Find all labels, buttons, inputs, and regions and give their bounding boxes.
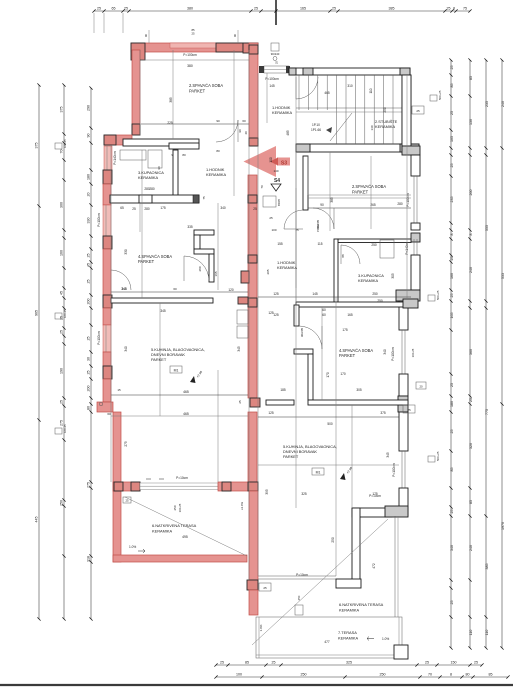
right dimension chain 2: [468, 58, 472, 649]
svg-text:160-25: 160-25: [63, 309, 67, 318]
svg-text:477: 477: [324, 640, 330, 644]
svg-text:25: 25: [60, 400, 64, 404]
stair east wall: [402, 75, 411, 147]
left unit top-right corner column: [243, 43, 258, 53]
living room south window band: [140, 483, 218, 490]
svg-text:KERAMIKA: KERAMIKA: [272, 110, 293, 115]
svg-text:80: 80: [466, 673, 470, 677]
spine wall middle: [248, 175, 257, 398]
right living hline: [258, 464, 399, 466]
right unit inner face lines: [295, 75, 297, 508]
svg-text:25: 25: [97, 7, 101, 11]
svg-text:25: 25: [87, 280, 91, 284]
svg-text:KERAMIKA: KERAMIKA: [138, 175, 159, 180]
svg-text:90: 90: [87, 134, 91, 138]
svg-text:472: 472: [372, 563, 376, 569]
svg-text:75: 75: [463, 7, 467, 11]
svg-text:8: 8: [469, 234, 473, 236]
svg-text:2.SPAVAĆA SOBA: 2.SPAVAĆA SOBA: [352, 184, 386, 189]
svg-text:25: 25: [220, 661, 224, 665]
svg-text:S3: S3: [281, 161, 287, 167]
svg-text:90/240: 90/240: [271, 52, 280, 56]
east wall seg3: [411, 255, 420, 290]
svg-text:375: 375: [380, 411, 386, 415]
svg-text:465: 465: [324, 91, 330, 95]
svg-text:60: 60: [107, 412, 111, 416]
svg-text:2.SPAVAĆA SOBA: 2.SPAVAĆA SOBA: [189, 83, 223, 88]
svg-text:335: 335: [187, 225, 193, 229]
svg-text:250: 250: [301, 673, 307, 677]
svg-text:165: 165: [347, 313, 353, 317]
spine column at living wall: [248, 482, 258, 491]
west wall column B: [103, 170, 112, 184]
section marker square top: [271, 43, 279, 51]
svg-text:25: 25: [474, 661, 478, 665]
svg-text:160-25: 160-25: [63, 424, 67, 433]
svg-text:85: 85: [489, 673, 493, 677]
left unit west wall mid4: [103, 352, 111, 366]
svg-text:25: 25: [450, 164, 454, 168]
svg-text:PP/02: PP/02: [316, 224, 320, 232]
svg-text:500: 500: [327, 422, 333, 426]
svg-text:165: 165: [450, 313, 454, 319]
bedroom4 nook mid wall: [194, 249, 214, 254]
svg-text:250: 250: [173, 505, 177, 510]
svg-text:85: 85: [450, 84, 454, 88]
stair east wall lower: [402, 75, 411, 146]
right terrace west wall: [352, 508, 360, 585]
svg-text:65: 65: [112, 7, 116, 11]
svg-text:90: 90: [216, 119, 220, 123]
svg-text:325: 325: [301, 492, 307, 496]
svg-text:25: 25: [450, 294, 454, 298]
bedroom4 interior lines: [139, 203, 141, 232]
svg-text:385: 385: [389, 7, 395, 11]
right bedroom4 south wall west: [266, 400, 294, 405]
svg-text:85: 85: [469, 76, 473, 80]
east wall column 3: [398, 396, 408, 412]
svg-text:P=100cm: P=100cm: [97, 213, 101, 227]
svg-text:305: 305: [356, 388, 362, 392]
box right of spine at hall wall: [263, 196, 276, 207]
terrace bottom wall: [113, 555, 247, 562]
left dimension chain outer: [35, 83, 41, 620]
svg-text:25: 25: [416, 109, 420, 113]
stair north wall east column: [400, 68, 410, 75]
svg-text:130: 130: [469, 119, 473, 125]
ext line y417 right: [258, 416, 399, 418]
right bedroom4 nook upper wall: [294, 305, 299, 326]
svg-text:340: 340: [220, 206, 226, 210]
spine column 5 left block: [241, 271, 249, 283]
bathroom-hall partition wall: [173, 150, 178, 196]
ext line x296b right: [295, 152, 297, 302]
right bedroom2 west wall: [303, 156, 308, 210]
west wall window 2: [103, 325, 111, 352]
east wall column 2: [411, 233, 420, 242]
svg-text:8: 8: [450, 234, 454, 236]
right nook door swing: [299, 326, 322, 349]
spine wall lower: [248, 412, 257, 482]
spine wall terrace section: [249, 491, 258, 580]
east wall seg5: [399, 374, 408, 396]
right dimension chain 4: [500, 58, 504, 649]
svg-text:500+25: 500+25: [438, 90, 442, 100]
stair entry door swing: [295, 77, 297, 99]
svg-text:25: 25: [450, 510, 454, 514]
west wall window 1: [103, 205, 111, 236]
svg-text:180: 180: [87, 174, 91, 180]
right terrace diagonal: [252, 519, 388, 645]
bedroom2 interior top dim: [141, 59, 249, 61]
stair 25 box: [412, 106, 424, 114]
east wall window 1: [413, 176, 415, 223]
svg-text:465: 465: [183, 412, 189, 416]
left dimension chain middle: [60, 83, 66, 620]
svg-text:1.0%: 1.0%: [382, 637, 389, 641]
svg-text:240: 240: [469, 545, 473, 551]
right bedroom4 nook lower wall: [308, 354, 313, 400]
svg-text:300: 300: [60, 202, 64, 208]
svg-text:200: 200: [87, 299, 91, 305]
west wall step block: [97, 402, 113, 412]
top dimension chain left part: [92, 7, 262, 13]
left dimension chain inner: [87, 86, 93, 620]
svg-text:175: 175: [160, 206, 166, 210]
kitchen counter boxes: [237, 310, 248, 324]
svg-text:555: 555: [485, 225, 489, 231]
svg-text:25: 25: [407, 408, 411, 412]
right living ext vline: [351, 405, 353, 508]
svg-text:25: 25: [450, 66, 454, 70]
svg-text:KERAMIKA: KERAMIKA: [375, 124, 396, 129]
spine wall upper: [249, 43, 258, 146]
spine column 6: [248, 298, 257, 307]
svg-text:125: 125: [268, 411, 274, 415]
right bedroom2 thin double line: [308, 194, 411, 196]
right bedroom4 south wall east: [308, 400, 408, 405]
circle step left wall: [99, 402, 103, 406]
window marks on top wall: [148, 30, 150, 43]
living room south wall east part: [218, 482, 258, 491]
east wall jog block: [396, 290, 420, 301]
svg-text:160-25: 160-25: [63, 139, 67, 148]
svg-text:P=140cm: P=140cm: [113, 151, 117, 165]
svg-text:60: 60: [242, 119, 246, 123]
living south wall column W: [114, 482, 123, 491]
small box right of spine end: [259, 583, 271, 591]
terrace7 outline: [256, 617, 402, 658]
svg-text:775: 775: [485, 409, 489, 415]
spine wall tail: [249, 590, 258, 615]
svg-text:205: 205: [266, 269, 270, 274]
svg-text:250: 250: [383, 107, 387, 113]
top dimension chain right part: [274, 7, 471, 13]
stair south wall: [296, 144, 419, 152]
svg-text:140: 140: [370, 125, 374, 130]
bedroom4 south wall block: [238, 297, 248, 304]
svg-text:P=10cm: P=10cm: [296, 573, 308, 577]
marker box right 1: [430, 95, 437, 101]
bedroom2 south wall step: [169, 143, 199, 149]
svg-text:275: 275: [124, 441, 128, 447]
svg-text:25: 25: [469, 398, 473, 402]
svg-text:250: 250: [331, 537, 335, 543]
bottom border line: [0, 684, 513, 686]
svg-text:125: 125: [273, 313, 279, 317]
svg-text:65: 65: [120, 206, 124, 210]
svg-text:25: 25: [238, 400, 242, 404]
svg-text:90: 90: [233, 33, 237, 37]
living south wall column 2: [222, 482, 231, 491]
hall south wall end block: [193, 195, 199, 203]
svg-text:20: 20: [419, 385, 423, 389]
svg-text:160: 160: [450, 273, 454, 279]
svg-text:500+25: 500+25: [436, 290, 440, 300]
svg-text:465: 465: [183, 390, 189, 394]
right terrace parapet: [258, 575, 336, 577]
svg-text:345: 345: [121, 287, 127, 291]
east wall seg6: [399, 412, 408, 451]
terrace east thin boundary: [394, 516, 396, 617]
left unit top wall: [131, 43, 258, 52]
east wall seg2: [411, 223, 420, 230]
stair north wall west column: [289, 68, 296, 75]
svg-text:235: 235: [485, 101, 489, 107]
svg-text:30: 30: [87, 357, 91, 361]
svg-text:485: 485: [286, 130, 290, 136]
top wall window band: [170, 43, 217, 48]
svg-text:445: 445: [35, 517, 39, 523]
svg-text:90: 90: [238, 129, 242, 133]
svg-text:240: 240: [469, 267, 473, 273]
ext line x371 right: [370, 156, 372, 229]
svg-text:25: 25: [253, 207, 257, 211]
svg-text:25: 25: [447, 7, 451, 11]
spine end column: [247, 580, 258, 590]
stair south wall west column: [296, 144, 310, 152]
svg-text:25: 25: [450, 111, 454, 115]
right south wall spine block: [250, 398, 260, 407]
right unit inner face line spine: [257, 73, 259, 576]
left unit top-left corner column: [131, 43, 145, 60]
marker box 1: [55, 143, 62, 149]
svg-text:380: 380: [187, 7, 193, 11]
svg-text:60: 60: [322, 308, 326, 312]
svg-text:6.NATKRIVENA TERASA: 6.NATKRIVENA TERASA: [339, 602, 384, 607]
right living south walls: [352, 508, 392, 517]
svg-text:8: 8: [450, 673, 452, 677]
top section line marker: [275, 0, 277, 25]
svg-text:PARKET: PARKET: [151, 357, 167, 362]
right dimension chain 1: [449, 58, 453, 649]
svg-text:100: 100: [269, 157, 273, 163]
svg-text:M1: M1: [316, 471, 321, 475]
svg-text:225: 225: [167, 121, 173, 125]
svg-text:330: 330: [87, 218, 91, 224]
right hall south gray block: [403, 299, 418, 308]
svg-text:KERAMIKA: KERAMIKA: [338, 636, 359, 641]
svg-text:495: 495: [182, 535, 188, 539]
bedroom4 nook lower wall: [209, 254, 214, 282]
svg-text:80: 80: [87, 406, 91, 410]
svg-text:90: 90: [157, 166, 161, 170]
svg-text:M1: M1: [174, 369, 179, 373]
bedroom4 door swing: [184, 256, 209, 281]
svg-text:340: 340: [124, 346, 128, 352]
stair south wall east column: [400, 144, 419, 152]
spine column 2: [249, 138, 258, 146]
svg-text:145: 145: [269, 84, 275, 88]
east wall seg7: [399, 488, 408, 507]
east wall window 4: [401, 451, 403, 488]
svg-text:PARKET: PARKET: [352, 190, 369, 195]
svg-text:170: 170: [326, 372, 330, 378]
svg-text:25: 25: [450, 601, 454, 605]
svg-text:105: 105: [450, 136, 454, 142]
svg-text:60: 60: [322, 313, 326, 317]
svg-text:P=100cm: P=100cm: [391, 347, 395, 361]
svg-text:310: 310: [347, 84, 353, 88]
svg-text:385: 385: [330, 197, 334, 203]
left closet door arc: [111, 270, 131, 290]
ext line x160: [159, 303, 161, 416]
svg-text:165: 165: [300, 7, 306, 11]
east wall seg1: [411, 155, 420, 176]
svg-text:533: 533: [501, 273, 505, 279]
bedroom2 south wall band: [123, 139, 199, 146]
svg-text:KERAMIKA: KERAMIKA: [152, 529, 173, 534]
svg-text:85: 85: [469, 500, 473, 504]
svg-text:240: 240: [501, 101, 505, 107]
terrace small box left: [123, 497, 131, 503]
right unit north window band: [264, 66, 289, 73]
svg-text:S4: S4: [274, 178, 280, 184]
svg-text:120: 120: [228, 288, 234, 292]
west wall column E: [103, 366, 112, 379]
living room south wall west part: [113, 482, 140, 491]
svg-text:PARKET: PARKET: [189, 89, 206, 94]
svg-text:280: 280: [144, 187, 150, 191]
terrace west wall lower: [113, 491, 121, 562]
svg-text:PARKET: PARKET: [283, 454, 299, 459]
right bedroom4 nook mid wall: [294, 349, 313, 354]
terrace7 corner block: [394, 645, 408, 659]
svg-text:190: 190: [60, 368, 64, 374]
svg-text:318: 318: [87, 556, 91, 562]
svg-text:P=100cm: P=100cm: [265, 77, 279, 81]
svg-text:235: 235: [450, 197, 454, 203]
svg-text:7.TERASA: 7.TERASA: [338, 630, 357, 635]
svg-text:375: 375: [35, 143, 39, 149]
entry arrow S3: [244, 146, 277, 177]
svg-text:6.NATKRIVENA TERASA: 6.NATKRIVENA TERASA: [152, 523, 197, 528]
bedroom4 nook side wall: [194, 235, 200, 249]
svg-text:≤1.0%: ≤1.0%: [240, 502, 244, 510]
east wall bottom corner: [390, 507, 408, 516]
svg-text:45: 45: [87, 263, 91, 267]
spine column top: [249, 45, 258, 54]
svg-text:90: 90: [144, 33, 148, 37]
svg-text:25: 25: [124, 7, 128, 11]
west wall window P140: [104, 146, 112, 170]
east wall seg4: [399, 301, 408, 330]
svg-text:345: 345: [160, 309, 166, 313]
svg-text:290: 290: [87, 105, 91, 111]
marker box 2: [55, 313, 62, 319]
left unit inner face lines: [139, 50, 141, 135]
bathroom fixtures left: [120, 150, 146, 160]
ext line x142: [141, 150, 143, 298]
svg-text:P=10cm: P=10cm: [176, 476, 188, 480]
svg-text:100-25: 100-25: [178, 503, 182, 512]
M1 marker right: [312, 468, 324, 475]
svg-text:85: 85: [245, 661, 249, 665]
svg-text:25: 25: [450, 383, 454, 387]
svg-text:1P1.66: 1P1.66: [311, 128, 321, 132]
bedroom4 nook top wall: [194, 230, 214, 235]
svg-text:145: 145: [312, 292, 318, 296]
svg-text:125: 125: [273, 292, 279, 296]
svg-text:330: 330: [124, 249, 128, 255]
marker box right 3: [428, 456, 435, 462]
right east small box 20: [416, 382, 426, 389]
svg-text:115: 115: [317, 242, 322, 246]
north arrow symbol right: [340, 473, 346, 480]
svg-text:385: 385: [169, 97, 173, 103]
svg-text:KERAMIKA: KERAMIKA: [277, 265, 298, 270]
ext line y206 right top: [307, 156, 309, 195]
west wall column D: [103, 295, 112, 308]
right bedroom2 dim line: [308, 207, 411, 209]
svg-text:25: 25: [87, 371, 91, 375]
svg-text:170: 170: [340, 372, 346, 376]
west wall column C: [103, 236, 112, 249]
right bedroom2 door swing: [284, 210, 303, 229]
svg-text:385: 385: [485, 564, 489, 570]
svg-text:125: 125: [268, 311, 274, 315]
svg-text:100: 100: [271, 228, 276, 232]
svg-text:280: 280: [397, 202, 403, 206]
svg-text:180: 180: [450, 401, 454, 407]
svg-text:P=10cm: P=10cm: [369, 494, 381, 498]
marker box 3: [55, 428, 62, 434]
living interior lines: [217, 370, 219, 482]
svg-text:KERAMIKA: KERAMIKA: [358, 278, 379, 283]
svg-text:155: 155: [277, 242, 283, 246]
M1 marker left: [170, 366, 182, 373]
right bedroom2 SW door arc: [313, 208, 334, 229]
svg-text:25: 25: [272, 661, 276, 665]
svg-text:320: 320: [469, 443, 473, 449]
svg-text:20: 20: [87, 193, 91, 197]
right dimension chain 3: [484, 58, 488, 649]
svg-text:250: 250: [372, 292, 378, 296]
svg-text:250: 250: [380, 673, 386, 677]
svg-text:100-25: 100-25: [411, 348, 415, 357]
svg-text:25: 25: [254, 7, 258, 11]
stair south-east corner block: [402, 146, 420, 155]
svg-text:325: 325: [346, 661, 352, 665]
svg-text:360: 360: [469, 349, 473, 355]
svg-text:PARKET: PARKET: [339, 353, 356, 358]
svg-text:375: 375: [60, 107, 64, 113]
left unit west wall mid5: [103, 379, 111, 402]
svg-text:80: 80: [182, 153, 186, 157]
svg-text:340: 340: [383, 349, 387, 355]
ext line y290 left: [111, 291, 248, 293]
svg-text:280: 280: [149, 187, 155, 191]
